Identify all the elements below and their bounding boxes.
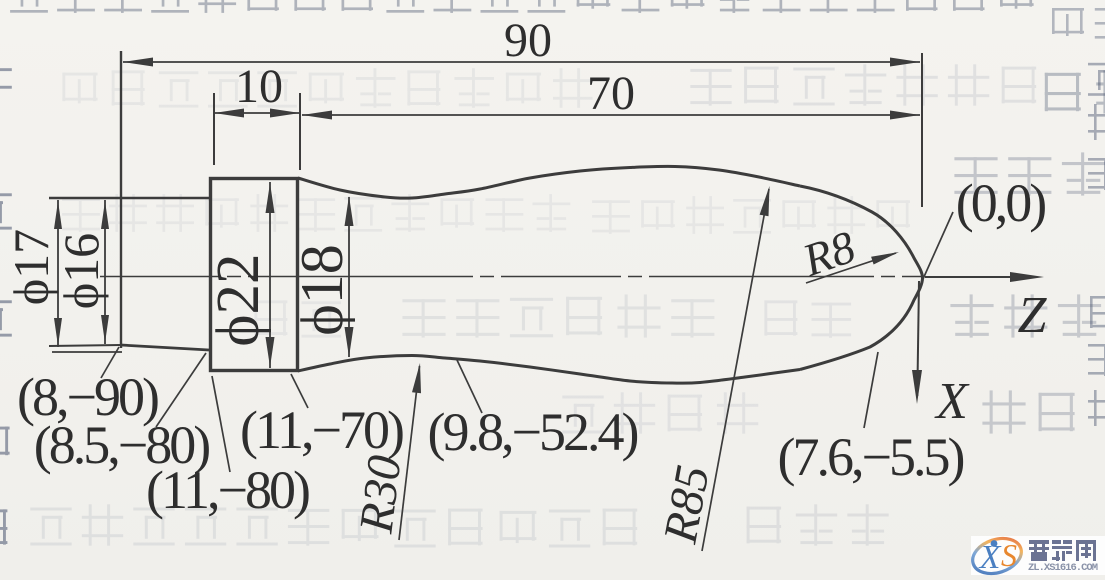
svg-text:(11,−80): (11,−80) xyxy=(146,460,309,520)
svg-text:X: X xyxy=(978,539,1002,576)
svg-text:R30: R30 xyxy=(349,453,411,537)
svg-text:S: S xyxy=(1001,537,1017,573)
svg-text:ZL.XS1616.COM: ZL.XS1616.COM xyxy=(1028,562,1098,574)
svg-text:(11,−70): (11,−70) xyxy=(240,400,403,460)
svg-text:Z: Z xyxy=(1018,287,1048,344)
svg-text:90: 90 xyxy=(504,14,552,67)
svg-text:ϕ17: ϕ17 xyxy=(3,229,59,305)
svg-text:R85: R85 xyxy=(653,461,719,548)
svg-text:(9.8,−52.4): (9.8,−52.4) xyxy=(428,402,638,462)
svg-text:70: 70 xyxy=(587,67,635,120)
svg-text:ϕ22: ϕ22 xyxy=(205,253,272,346)
svg-text:ϕ18: ϕ18 xyxy=(289,244,355,336)
svg-text:(7.6,−5.5): (7.6,−5.5) xyxy=(778,427,964,487)
svg-text:ϕ16: ϕ16 xyxy=(53,233,109,309)
svg-text:(0,0): (0,0) xyxy=(956,173,1045,233)
svg-text:10: 10 xyxy=(235,60,283,113)
svg-text:X: X xyxy=(934,373,970,430)
